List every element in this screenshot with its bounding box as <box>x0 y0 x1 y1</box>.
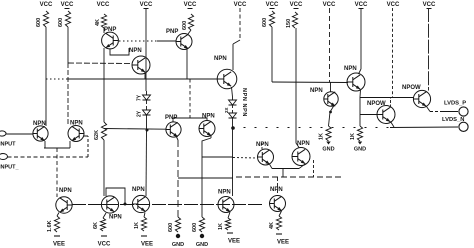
svg-text:VCC: VCC <box>40 2 53 8</box>
svg-text:VEE: VEE <box>53 242 65 248</box>
svg-text:2Y: 2Y <box>137 110 143 117</box>
wire to Q18 base <box>360 97 414 99</box>
transistor Q15 NPN <box>270 196 286 212</box>
transistor Q18 NPOW output high <box>413 90 430 107</box>
svg-text:VCC: VCC <box>98 242 111 248</box>
transistor Q16 NPN driver <box>347 73 365 91</box>
wire INPUT+ to Q1 base <box>6 133 33 135</box>
svg-text:NPOW: NPOW <box>367 101 386 107</box>
wire Q3 to Q4 base (dotted) <box>119 40 157 42</box>
transistor Q10 NPN <box>132 195 149 212</box>
wire Q7 emitter down <box>176 136 178 140</box>
wire Q3 collector down to 62K <box>103 48 105 122</box>
svg-text:600: 600 <box>58 18 64 27</box>
svg-text:6K: 6K <box>93 222 99 229</box>
wire LVDS_N long line <box>233 127 391 129</box>
wire mid pair base bar <box>172 118 174 122</box>
wire to Q19 base <box>360 114 378 116</box>
wire node down to Q15 collector <box>277 177 279 196</box>
wire Q16 emitter node <box>359 90 362 98</box>
wire join node down <box>282 169 284 178</box>
svg-text:PNP: PNP <box>104 27 116 33</box>
wire 62K node to Q7 base <box>104 128 166 131</box>
wire Q12 collector stub <box>261 141 263 149</box>
wire long dash bus y177 <box>236 176 343 178</box>
svg-text:150: 150 <box>286 19 292 28</box>
wire node down to mesh <box>232 128 234 196</box>
wire rail4 down to D1 <box>145 8 147 91</box>
svg-text:NPOW: NPOW <box>402 85 421 91</box>
svg-text:NPN: NPN <box>218 190 231 196</box>
diode D2 <box>146 106 148 110</box>
wire differential pair emitters <box>44 141 46 148</box>
svg-text:GND: GND <box>354 147 366 153</box>
wire Q17 collector up <box>330 82 332 92</box>
resistor 600 to GND 2 <box>199 217 204 232</box>
wire node to Q12 base mesh <box>202 156 233 158</box>
input terminal INPUT- <box>0 154 8 160</box>
svg-text:1K: 1K <box>218 223 224 230</box>
resistor 150 (rail 8) <box>292 12 297 28</box>
wire Q10 emitter to 1K <box>144 213 145 218</box>
wire Q3 collector jog <box>110 48 129 55</box>
svg-text:2X: 2X <box>224 107 229 113</box>
transistor Q6 NPN emitter follower <box>217 69 237 89</box>
wire Q8 emitter down <box>210 136 212 139</box>
svg-text:VCC: VCC <box>61 2 74 8</box>
svg-text:VEE: VEE <box>141 242 153 248</box>
svg-text:VCC: VCC <box>234 2 247 8</box>
wire Q19 collector up <box>390 98 392 108</box>
svg-text:NPN: NPN <box>33 121 46 127</box>
svg-text:600: 600 <box>182 21 188 30</box>
diode D4 <box>232 110 234 113</box>
transistor Q13 NPN <box>292 148 310 166</box>
wire rail12 to Q18 collector <box>428 8 430 91</box>
wire D4 down to LVDS node <box>232 121 234 128</box>
wire tail node to Q5 collector <box>56 148 58 197</box>
wire Q5 emitter down <box>144 73 146 80</box>
wire Q13 collector to 150 rail <box>296 28 299 148</box>
svg-text:INPUT_: INPUT_ <box>0 165 20 171</box>
svg-text:600: 600 <box>192 223 198 232</box>
resistor 1K under Q14 <box>225 218 230 230</box>
svg-text:NPN NPN: NPN NPN <box>241 88 247 117</box>
wire rail11 down dashed <box>392 8 394 97</box>
wire Q15 emitter resistor <box>279 211 282 216</box>
wire bus to mid pair bases <box>189 79 191 118</box>
wire rail7 down <box>271 27 273 82</box>
svg-text:GND: GND <box>196 242 208 248</box>
svg-text:600: 600 <box>262 18 268 27</box>
svg-text:GND: GND <box>322 147 334 153</box>
svg-text:VCC: VCC <box>97 2 110 8</box>
svg-text:NPN: NPN <box>59 188 72 194</box>
wire D2 to node <box>146 119 148 130</box>
transistor Q4 PNP <box>176 34 192 50</box>
svg-text:NPN: NPN <box>297 141 310 147</box>
resistor 600 to GND <box>175 217 180 232</box>
wire rail2 to Q5 base <box>68 62 132 65</box>
wire node down to Q10 collector <box>145 130 148 196</box>
resistor 1K to GND right <box>357 126 362 141</box>
svg-text:VCC: VCC <box>387 2 400 8</box>
transistor Q1 NPN input <box>33 126 48 141</box>
wire Q6 emitter to diodes <box>232 87 233 97</box>
svg-text:NPN: NPN <box>214 56 227 62</box>
svg-text:1K: 1K <box>134 222 140 229</box>
transistor Q19 NPOW output low <box>377 106 395 124</box>
svg-text:VCC: VCC <box>355 2 368 8</box>
resistor under Q15 <box>276 216 281 230</box>
node junction below D2 <box>146 129 149 132</box>
wire rail10 to Q16 collector <box>360 8 362 69</box>
svg-text:VEE: VEE <box>277 240 289 246</box>
svg-text:7Y: 7Y <box>137 94 143 101</box>
ground VEE under Q14 <box>227 232 233 234</box>
svg-text:62K: 62K <box>94 130 100 140</box>
svg-text:PNP: PNP <box>166 29 178 35</box>
svg-text:VCC: VCC <box>140 2 153 8</box>
transistor Q7 PNP mid <box>166 122 181 137</box>
svg-text:GND: GND <box>172 242 184 248</box>
transistor Q14 NPN <box>218 197 234 213</box>
svg-text:1K: 1K <box>350 133 356 140</box>
resistor 600 (rail 2) <box>65 11 70 27</box>
wire rail2 to Q2 collector <box>67 27 69 63</box>
resistor 600 (rail 7) <box>269 11 274 27</box>
output terminal LVDS_P <box>459 107 468 116</box>
transistor Q17 NPN small <box>324 92 338 106</box>
input terminal INPUT+ <box>0 131 6 136</box>
ground GND dot left <box>176 234 180 238</box>
wire rail9 down <box>329 8 331 82</box>
transistor Q3 PNP <box>102 32 119 49</box>
resistor 6K <box>100 218 105 231</box>
wire main horizontal bus y79 <box>46 78 68 80</box>
svg-text:4K: 4K <box>269 222 275 229</box>
diode D3 <box>232 97 234 100</box>
wire Q4 collector to bus <box>186 49 188 79</box>
svg-text:VCC: VCC <box>423 2 436 8</box>
svg-text:LVDS_P: LVDS_P <box>444 101 466 107</box>
transistor Q2 NPN input <box>68 126 84 142</box>
wire Q13 right leg <box>313 160 315 177</box>
svg-text:1.6K: 1.6K <box>47 220 53 232</box>
ground GND arrow left <box>326 142 330 145</box>
resistor 1K to GND left <box>326 126 331 141</box>
wire bias bus y204 <box>72 204 263 206</box>
node junction D4 bottom <box>231 126 235 130</box>
svg-text:NPN: NPN <box>132 187 145 193</box>
svg-text:VCC: VCC <box>290 2 303 8</box>
resistor 1.6K <box>54 216 59 232</box>
svg-text:600: 600 <box>36 18 42 27</box>
wire Q12 Q13 emitters join <box>270 164 273 168</box>
wire bus y82 to Q16 base <box>272 81 348 84</box>
svg-text:VCC: VCC <box>184 2 197 8</box>
ground VEE under Q15 <box>276 233 282 235</box>
ground VEE under 1.6K <box>54 235 60 237</box>
svg-text:NPN: NPN <box>109 215 122 221</box>
svg-text:NPN: NPN <box>70 121 83 127</box>
wire 62K to Q11 collector <box>103 140 105 196</box>
resistor 4K (rail 3) <box>101 14 106 28</box>
wire mesh horizontal y178 <box>178 177 233 179</box>
wire rail6 to Q6 collector <box>239 8 241 40</box>
wire Q14 emitter resistor <box>228 212 230 218</box>
wire Q8 leg to 600 <box>201 157 203 217</box>
resistor 600 (rail 1) <box>43 11 48 27</box>
transistor Q11 NPN <box>101 196 118 213</box>
wire Q11 emitter to 6K <box>103 213 106 218</box>
ground GND dot right <box>200 234 204 238</box>
ground VEE under Q10 <box>141 235 147 237</box>
diode D1 <box>146 91 148 95</box>
transistor Q8 NPN mid <box>199 121 215 137</box>
svg-text:NPN: NPN <box>310 88 323 94</box>
wire Q18 emitter to LVDS_P <box>427 107 431 112</box>
wire Q17 emitter to 1K <box>330 106 334 113</box>
svg-text:NPN: NPN <box>202 114 215 120</box>
transistor Q5 NPN second stage <box>132 56 150 74</box>
svg-text:VEE: VEE <box>228 239 240 245</box>
resistor 62K <box>101 122 106 140</box>
svg-text:NPN: NPN <box>129 48 142 54</box>
ground GND arrow right <box>358 142 362 145</box>
ground VCC under 6K <box>101 235 107 237</box>
transistor Q12 NPN <box>258 149 274 165</box>
wire INPUT- to Q2 base <box>8 156 89 158</box>
svg-text:600: 600 <box>168 223 174 232</box>
svg-text:NPN: NPN <box>344 66 357 72</box>
svg-text:NPN: NPN <box>270 187 283 193</box>
node bias junction <box>124 203 127 206</box>
svg-text:LVDS_N: LVDS_N <box>442 117 464 123</box>
svg-text:INPUT: INPUT <box>0 142 16 148</box>
wire Q9 emitter to 1.6K <box>57 213 59 217</box>
wire rail3 to Q3 <box>103 28 105 33</box>
wire Q19 emitter to LVDS_N line <box>391 122 395 128</box>
wire rail5 to Q4 emitter <box>188 30 191 34</box>
resistor 1K under Q10 <box>141 217 146 231</box>
svg-text:4K: 4K <box>95 19 101 26</box>
svg-text:VCC: VCC <box>266 2 279 8</box>
resistor 600 (rail 5) <box>188 14 193 30</box>
svg-text:1K: 1K <box>319 133 325 140</box>
wire Q11 collector diode connect <box>106 188 125 204</box>
wire rail1 to Q1 collector <box>45 27 47 126</box>
svg-text:VCC: VCC <box>323 2 336 8</box>
output terminal LVDS_N <box>459 122 468 131</box>
transistor Q9 NPN tail source <box>56 197 72 213</box>
